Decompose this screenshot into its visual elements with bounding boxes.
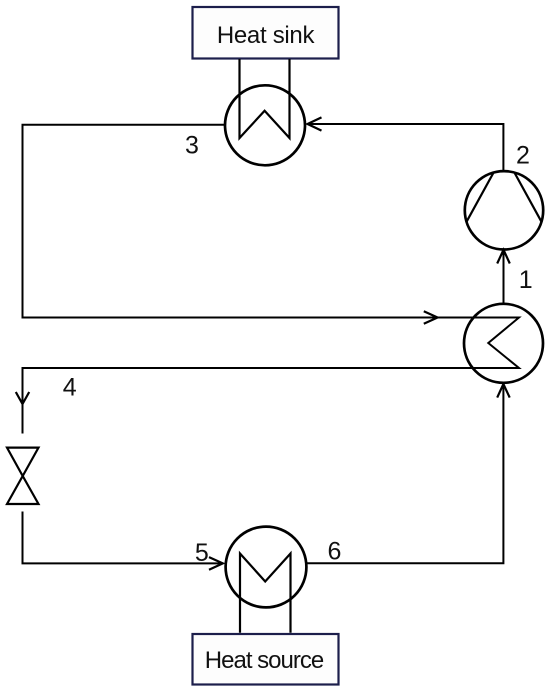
svg-text:Heat sink: Heat sink bbox=[217, 22, 316, 49]
wire condenser-to-IHX with zigzag through internal heat exchanger and down to valve bbox=[23, 125, 520, 434]
wire condenser-to-compressor (top right) bbox=[308, 124, 504, 172]
svg-text:5: 5 bbox=[195, 539, 209, 567]
svg-text:3: 3 bbox=[185, 132, 199, 160]
internal heat exchanger IHX bbox=[464, 304, 543, 383]
arrow on wire to valve (pointing down) bbox=[16, 392, 29, 404]
svg-text:2: 2 bbox=[516, 142, 530, 170]
arrow into compressor (pointing up) bbox=[497, 250, 510, 264]
wire valve-to-evaporator (bottom left) bbox=[23, 512, 223, 564]
arrow into condenser (pointing left) bbox=[308, 117, 322, 130]
arrow into IHX bottom (pointing up) bbox=[497, 384, 510, 398]
evaporator heat exchanger HX-bottom bbox=[226, 527, 307, 633]
heat sink box bbox=[193, 7, 339, 59]
svg-text:4: 4 bbox=[63, 374, 77, 402]
condenser heat exchanger HX-top bbox=[225, 59, 305, 165]
svg-text:1: 1 bbox=[519, 266, 533, 294]
wire IHX-to-compressor (vertical) bbox=[503, 250, 505, 304]
expansion valve bbox=[7, 448, 39, 504]
heat source box bbox=[193, 634, 339, 685]
wire evaporator-to-IHX (bottom right) bbox=[307, 385, 504, 563]
arrow into evaporator (pointing right) bbox=[209, 557, 223, 570]
compressor bbox=[465, 171, 543, 249]
arrow on wire into IHX (pointing right) bbox=[424, 311, 438, 324]
svg-text:6: 6 bbox=[328, 538, 342, 566]
svg-text:Heat source: Heat source bbox=[205, 647, 324, 674]
